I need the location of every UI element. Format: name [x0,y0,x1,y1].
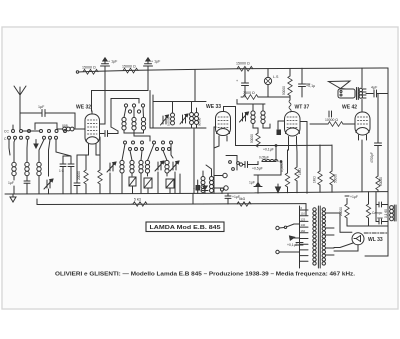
wire L9 top [130,151,132,161]
resistor R9 vertical 20000 [282,69,292,113]
svg-text:Campo: Campo [372,211,383,215]
wire 378 upper [377,94,379,144]
wire L10 top [141,151,142,161]
wire lamp down [267,85,269,97]
svg-text:140: 140 [301,223,306,227]
coil L11 [145,160,149,173]
wire antenna horizontal [20,112,42,114]
wire WE33 plate [224,107,236,112]
variable capacitor CV1 [39,173,53,194]
resistor R10 vertical [280,150,290,193]
resistor R12 on bus2 right [237,197,251,206]
svg-text:WE 32: WE 32 [76,105,91,111]
wire L3 top [39,140,44,163]
coil L9 [130,160,134,173]
wire switch row link [23,130,40,132]
band switch contacts left [4,130,67,142]
resistor R6 on bus2 [132,198,147,207]
wire gang line bus2 [37,203,306,206]
wire grid loop from C2 [92,71,149,112]
capacitor C6 plate [105,131,108,137]
wire to osc coils [108,131,119,134]
osc wires [124,107,126,117]
coil L1 [12,162,16,175]
resistor R4 vertical [77,155,88,193]
wire vertical 180 [179,174,181,193]
mains switch [276,224,300,230]
wire WT37 cathode right [296,142,299,152]
trimmer CV7 [162,116,164,124]
capacitor C13 +1uF at 205 [193,186,208,193]
capacitor C7 [74,155,80,193]
coil L19 [210,177,214,193]
wire switch drop 9 [9,139,10,155]
svg-text:WL 33: WL 33 [368,237,383,243]
switch wires [122,144,125,160]
wire trafo to WE42 [361,100,363,113]
svg-text:+0,5μF: +0,5μF [252,167,263,171]
wire L19 stub [206,165,212,176]
wire switch stubs [12,125,14,130]
svg-text:1 C: 1 C [59,169,65,173]
variable capacitor CV4 left [107,162,116,172]
wire WE32 plate right [100,133,105,135]
capacitor C9 with terminal [239,162,262,171]
wire L12 bottom [166,173,168,176]
svg-text:0,1 60: 0,1 60 [384,209,388,218]
primary winding [313,208,316,211]
coil L2 [25,162,29,175]
wire row 145 right [290,144,332,146]
wire L6 top [133,107,135,117]
wires WL33 bottom [334,243,353,248]
wire WL33 dashdot right [364,232,388,234]
label box LAMDA [146,222,224,232]
capacitor C14 below bus [225,193,240,204]
ground bus bottom main [5,192,388,194]
svg-text:10000 Ω: 10000 Ω [325,118,338,122]
speaker cone [329,81,351,89]
coil L6 [132,117,136,130]
resistor R17 field [339,199,349,227]
svg-text:+0,1μ: +0,1μ [306,84,315,88]
svg-text:0,5MΩ: 0,5MΩ [280,162,284,172]
wire WE32 top cap [91,111,93,114]
wire osc box corner [111,127,118,131]
core [317,206,319,268]
wire L5-L7 bottom link [124,130,144,133]
wire bus1 to bus2 at 193 [192,193,194,204]
svg-text:15000 Ω: 15000 Ω [82,66,96,70]
coil L16 [261,111,265,115]
svg-text:160: 160 [301,229,306,233]
resistor R11 vertical [295,152,302,193]
wire detector lower [254,162,281,176]
variable capacitor CV2 [155,161,164,171]
svg-text:1μF: 1μF [38,105,45,109]
wire WE33 grid left [214,126,216,128]
capacitor C16 [329,111,332,117]
capacitor C23 padder [59,156,66,194]
switch down arrow [34,140,38,149]
wire WL33 bottom 2 [334,245,358,251]
capacitor C22 small [196,180,200,193]
terminal at 222 [221,188,224,193]
wire WT37 grid left [277,121,285,135]
svg-text:110: 110 [301,212,306,216]
wire cap stub [257,162,259,165]
svg-text:0,0005: 0,0005 [167,116,171,126]
svg-text:+1μF: +1μF [350,195,358,199]
svg-text:125: 125 [301,217,306,221]
trimmer CV5 [182,115,184,123]
wire CV4 bottom [109,173,111,193]
svg-text:+ 1μF: + 1μF [151,60,161,64]
svg-text:5kΩ: 5kΩ [239,197,246,201]
wire CV2 bottom [157,172,159,193]
svg-text:008: 008 [62,124,68,128]
voltage selector arrow [290,236,300,240]
wire cap column [375,192,377,222]
resistor R5 vertical [98,137,102,193]
resistor R14 vertical [330,145,338,192]
resistor R15 grid WE42 [310,118,345,126]
svg-text:15000 Ω: 15000 Ω [236,62,250,66]
svg-text:4μF: 4μF [371,86,378,90]
wire L12 top [163,151,167,161]
svg-text:CC: CC [4,130,9,134]
IF transformer 2 [237,100,270,134]
svg-text:20000: 20000 [339,207,343,216]
svg-text:WE 33: WE 33 [206,104,221,110]
svg-text:50000: 50000 [250,134,254,143]
resistor R8 7500 [241,91,290,99]
trimmer box T1 [129,177,136,193]
secondary taps [326,212,335,214]
wire coils top [14,140,15,163]
wire CV1 top [49,140,51,177]
wire tube WE33 cathode [214,141,219,148]
coil L8 [120,160,124,173]
wire L7 top [142,107,145,117]
svg-text:1μF: 1μF [8,181,14,185]
tube WE32 [76,105,100,152]
capacitor C24 padder [68,156,74,194]
wire tube leg right [96,151,100,155]
svg-text:+ 1μF: + 1μF [108,60,118,64]
wire bus2 to transformer [305,204,307,215]
capacitor C1 +1uF with ground [101,58,119,72]
coil L5 [122,117,126,130]
coil L3 [37,162,41,175]
wire grid loop down [149,91,151,129]
svg-text:50000: 50000 [282,86,286,95]
svg-text:1MΩ: 1MΩ [298,168,302,175]
resistor R7 vertical 50000 [250,133,260,147]
wire vertical 194 lower [193,128,195,193]
wire L9 bottom [131,173,133,176]
wire vertical 214 [213,127,215,193]
tube WE42 [342,105,370,141]
wire trafo top right [334,213,340,232]
wire switch top loop [35,123,57,130]
svg-text:+0,1μF: +0,1μF [287,243,298,247]
capacitor C8 0.1uF [263,148,274,152]
coil L10 [139,160,143,173]
wire WE42 cathode down [361,140,363,192]
wire WE42 grid [345,123,355,125]
speaker voice coil box [338,89,355,98]
coil L15 [251,111,255,115]
resistor R3 15000 ohm top middle [236,62,253,72]
wire 008 to tube [57,128,63,130]
resistor R18 campo [366,192,382,226]
capacitor C18 mains [287,243,303,251]
osc terminals row [124,104,144,113]
capacitor C12 0.1uF [299,68,316,97]
wire antenna to switch [45,113,75,128]
capacitor C11 [236,69,249,97]
svg-text:20000: 20000 [77,171,81,180]
capacitor C19 [345,195,358,199]
oscillator padder group [150,95,206,128]
coil L14 [195,113,199,117]
secondary winding [322,208,325,211]
electrolytic C10 [249,175,262,193]
wire WT37 right [300,122,307,194]
svg-text:00000: 00000 [198,117,202,126]
wire bus2 left drop [36,199,38,205]
svg-text:1MΩ: 1MΩ [313,176,317,183]
wire L10 bottom [140,173,142,193]
coil L12 [165,160,169,173]
IF transformer 1 [180,102,202,129]
vertical label 4700 [370,152,374,163]
variable capacitor CV3 [170,161,179,171]
terminal bus start [76,71,78,73]
wire CV3 bottom [174,172,176,193]
trimmer box T3 [166,179,174,193]
wire detector row [258,145,290,147]
switch contacts row 2 [124,141,173,151]
svg-text:0,05μF: 0,05μF [259,156,269,160]
capacitor C4 below L1 [8,176,14,194]
rectifier tube WL33 [352,233,383,245]
pickup terminal 2 [214,186,228,190]
wire speaker top [361,68,363,87]
tone switch contacts [226,156,239,171]
capacitor C21 [376,218,388,224]
tube WT37 [285,105,310,143]
wire CV3 top [171,144,173,158]
ground arrow bus at 278 [276,184,281,193]
wire L11 bottom [147,173,149,176]
svg-text:WT 37: WT 37 [295,105,310,111]
coil L20 [171,113,175,117]
svg-text:LAMDA Mod E.B. 845: LAMDA Mod E.B. 845 [150,225,221,231]
svg-text:4700pF: 4700pF [370,152,374,163]
wire top B+ bus [78,68,388,72]
coil L4 008 [62,124,74,131]
svg-text:1μF: 1μF [249,181,255,185]
output transformer [357,88,367,100]
wire mid vertical 195 [194,70,196,102]
capacitor C20 [376,202,388,207]
power transformer [300,206,335,268]
capacitor C3 series antenna [38,105,45,117]
coil L13 [190,113,194,117]
wire WE33 right [236,107,259,146]
junction dot [275,145,277,147]
oscillator coil box top [111,99,139,128]
wire bottom row [347,225,388,227]
wire 008 to tube grid [74,128,85,130]
tube WE33 [206,104,231,141]
wire padder top [56,140,71,157]
coil L7 [141,117,145,130]
trimmer CV6 [242,113,244,121]
trimmer box T2 [144,178,152,193]
wire L18 stub [202,171,204,176]
svg-text:+: + [236,79,238,83]
svg-text:50000: 50000 [379,177,383,186]
svg-text:OLIVIERI e GLISENTI: — Model: OLIVIERI e GLISENTI: — Modello Lamda E.B… [55,272,356,278]
capacitor C15 4uF [366,86,388,98]
capacitor C17 on 378 [375,143,382,148]
ground symbol left [10,194,16,202]
resistor R1 15000 ohm [82,66,98,75]
wire antenna shaft down [19,113,21,129]
wires detector verticals [262,146,276,162]
wire L6 bottom drop [134,130,150,141]
svg-text:WE 42: WE 42 [342,105,357,111]
filter choke right [384,205,396,221]
right rail [365,68,388,256]
resistor R16 vertical right [376,148,383,192]
capacitor C5 below L2 [24,176,30,194]
svg-text:+0,1μF: +0,1μF [263,148,274,152]
svg-text:7500 Ω: 7500 Ω [243,91,255,95]
wire WT37 cathode [288,142,289,150]
wire tube legs [77,151,89,155]
wire WL33 left [340,231,352,233]
wire L11 top [148,144,155,160]
resistor R2 15000 ohm [122,65,138,74]
wires coils to bus [121,173,123,193]
svg-text:50000: 50000 [334,174,338,183]
svg-text:L.S: L.S [273,75,279,79]
pickup terminal 1 [214,173,227,177]
coil L18 [201,177,205,193]
antenna [14,86,26,113]
mains terminal 2 [276,250,300,253]
lamp LS [264,69,279,85]
svg-text:15000 Ω: 15000 Ω [122,65,136,69]
resistor R13 vertical right of WT37 [313,145,323,192]
svg-text:5 kΩ: 5 kΩ [134,198,142,202]
capacitor C2 +1uF with ground [144,58,162,70]
wire screen from bus [100,71,106,125]
choke impedenza [259,156,282,163]
